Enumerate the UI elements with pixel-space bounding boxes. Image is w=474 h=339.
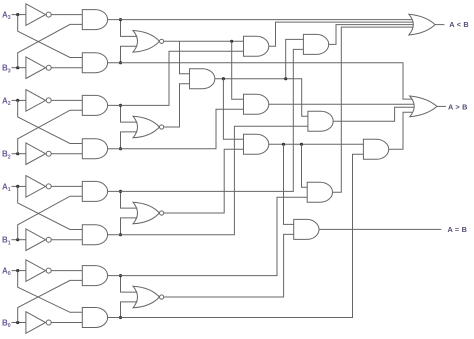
- wire B0 lead: [12, 322, 26, 324]
- junction B1 node: [16, 238, 19, 241]
- wire n3a notA3B3 to OR1 in1: [107, 19, 412, 21]
- wire notA0B0 to AND_g in2: [107, 197, 307, 275]
- svg-text:A = B: A = B: [448, 225, 468, 234]
- wire OR2 output: [437, 105, 446, 107]
- wire B1 lead: [12, 239, 26, 241]
- wire B2 lead: [12, 153, 26, 155]
- AND gate notA0.B0: [82, 266, 107, 286]
- inverter A2: [26, 90, 46, 112]
- wire A0 cross to lower AND: [18, 271, 83, 313]
- wire B1 cross to upper AND: [18, 196, 83, 240]
- wire notA3B3 to NOR in1: [121, 20, 138, 37]
- junction A3notB3 node: [119, 61, 122, 64]
- NOR gate x3 equality: [133, 31, 159, 53]
- junction A1 node: [16, 185, 19, 188]
- AND gate A2.notB2: [82, 139, 107, 159]
- junction A0notB0 node: [119, 316, 122, 319]
- AND gate notA3.B3: [82, 10, 107, 30]
- junction B3 node: [16, 66, 19, 69]
- wire x0 to AND_h in2: [164, 234, 294, 297]
- wire A0 inverter out: [51, 270, 82, 272]
- wire notA2B2 to AND_a in2: [107, 51, 243, 105]
- wire A3notB3 to NOR in2: [121, 46, 138, 63]
- wire OR1 output: [435, 24, 444, 26]
- wire A2 lead: [12, 99, 26, 101]
- wire B0 cross to upper AND: [18, 280, 83, 322]
- inverter B3: [26, 57, 46, 79]
- wire A2 cross to lower AND: [18, 100, 83, 143]
- AND gate AND_e p23.A1notB1: [308, 111, 333, 131]
- junction p231 branch to AND_g: [300, 143, 303, 146]
- wire B1 inverter out: [51, 239, 82, 241]
- junction B0 node: [16, 321, 19, 324]
- wire A2notB2 to NOR in2: [121, 132, 138, 149]
- junction p23 branch to AND_f: [222, 77, 225, 80]
- AND gate AND_g p231.notA0B0: [307, 182, 332, 202]
- AND gate AND_h equality out p231.x0: [294, 219, 319, 239]
- wire B3 lead: [12, 67, 26, 69]
- wire p231 to AND_i in1: [269, 143, 364, 145]
- junction B2 node: [16, 152, 19, 155]
- junction notA2B2 node: [119, 104, 122, 107]
- wire A2 inverter out: [51, 99, 82, 101]
- AND gate A3.notB3: [82, 53, 107, 73]
- AND gate AND_d x3.A2notB2: [244, 94, 269, 114]
- wire x3 drop to AND_d in1: [232, 41, 244, 99]
- junction A2notB2 node: [119, 147, 122, 150]
- wire A0notB0 to NOR in2: [121, 302, 138, 318]
- wire notA1B1 to NOR in1: [121, 191, 138, 208]
- OR gate OR2 A greater B: [410, 96, 437, 117]
- junction A0 node: [16, 269, 19, 272]
- inverter A1: [26, 176, 46, 198]
- wire x3 drop to AND_c in1: [180, 41, 190, 73]
- AND gate AND_b p23.notA1B1: [303, 34, 328, 54]
- wire x2 to AND_c in2: [164, 84, 190, 127]
- wire p23 rise to AND_b in1: [286, 39, 304, 78]
- wire AND_e out to OR2 in3: [333, 107, 414, 121]
- AND gate AND_c p23 = x3.x2: [190, 69, 215, 89]
- wire AND_g out to OR1 in4: [333, 27, 414, 192]
- wire p231 drop to AND_g in1: [302, 144, 308, 187]
- wire notA0B0 to NOR in1: [121, 276, 138, 293]
- junction p23 branch to AND_b: [284, 77, 287, 80]
- wire B0 inverter out: [51, 322, 82, 324]
- wire B2 cross to upper AND: [18, 110, 83, 154]
- inverter A0: [26, 260, 46, 282]
- wire A3 cross to lower AND: [18, 15, 83, 58]
- AND gate AND_a x3.notA2B2: [244, 36, 269, 56]
- inverter B2: [26, 143, 46, 165]
- wire A1notB1 to AND_e in2: [107, 126, 308, 235]
- wire A2notB2 to AND_d in2: [107, 109, 243, 148]
- wire A1 cross to lower AND: [18, 186, 83, 229]
- wire AND_b out to OR1 in3: [329, 25, 414, 45]
- wire A1 inverter out: [51, 185, 82, 187]
- junction p231 branch to AND_h: [282, 143, 285, 146]
- wire A3 lead: [12, 14, 26, 16]
- AND gate A0.notB0: [82, 308, 107, 328]
- junction x3 branch node: [230, 40, 233, 43]
- wire A0 lead: [12, 270, 26, 272]
- NOR gate x2 equality: [133, 116, 159, 138]
- wire B2 inverter out: [51, 153, 82, 155]
- wire p23 to AND_e in1: [215, 79, 308, 117]
- NOR gate x1 equality: [133, 202, 159, 224]
- wire A1 lead: [12, 185, 26, 187]
- wire A3 inverter out: [51, 14, 82, 16]
- wire AND_d out to OR2 in2: [269, 103, 414, 105]
- AND gate AND_f p231 = p23.x1: [244, 134, 269, 154]
- AND gate AND_i p231.A0notB0: [363, 139, 388, 159]
- OR gate OR1 A less B: [409, 14, 435, 35]
- wire p23 drop to AND_f in1: [223, 79, 243, 140]
- AND gate A1.notB1: [82, 225, 107, 245]
- junction notA3B3 node: [119, 18, 122, 21]
- junction A2 node: [16, 99, 19, 102]
- junction notA1B1 node: [119, 190, 122, 193]
- wire A equal B output line: [319, 228, 441, 230]
- wire n3b A3notB3 to OR2 in1: [107, 63, 412, 99]
- wire x3 to AND_a in1: [164, 40, 244, 42]
- inverter B0: [26, 312, 46, 334]
- wire A0notB0 to AND_i in2: [107, 154, 363, 317]
- wire p231 drop to AND_h in1: [284, 144, 294, 224]
- wire B3 cross to upper AND: [18, 24, 83, 67]
- wire notA1B1 to AND_b in2: [107, 49, 303, 191]
- AND gate notA2.B2: [82, 95, 107, 115]
- wire notA2B2 to NOR in1: [121, 105, 138, 122]
- NOR gate x0 equality: [133, 286, 159, 308]
- wire AND_a out to OR1 in2: [269, 22, 413, 46]
- wire x1 to AND_f in2: [164, 149, 244, 213]
- wire B3 inverter out: [51, 67, 82, 69]
- junction A3 node: [16, 13, 19, 16]
- svg-text:A > B: A > B: [448, 102, 468, 111]
- junction A1notB1 node: [119, 233, 122, 236]
- wire AND_i out to OR2 in4: [389, 112, 413, 149]
- AND gate notA1.B1: [82, 181, 107, 201]
- svg-text:A < B: A < B: [449, 20, 469, 29]
- inverter B1: [26, 229, 46, 251]
- inverter A3: [26, 4, 46, 26]
- junction notA0B0 node: [119, 274, 122, 277]
- wire A1notB1 to NOR in2: [121, 218, 138, 235]
